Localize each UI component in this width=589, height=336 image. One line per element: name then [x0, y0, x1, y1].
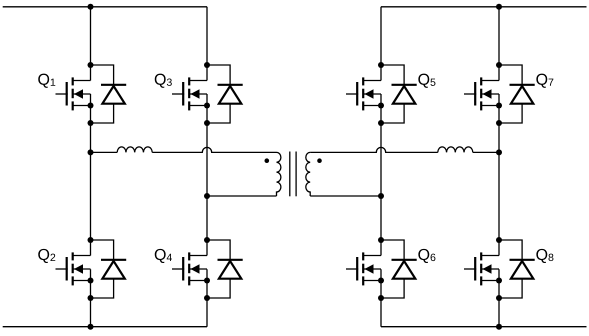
node Q1 drain junction	[88, 62, 94, 68]
wire leg 3 (Q5/Q6) vertical	[380, 7, 382, 327]
node Q6 source junction	[378, 278, 384, 284]
node Q1 source/diode junction	[88, 120, 94, 126]
node Q7 drain junction	[496, 62, 502, 68]
transformer T1 primary winding	[277, 152, 281, 196]
node leg 3 midpoint (secondary AC return)	[378, 193, 384, 199]
wire leg 2 (Q3/Q4) vertical	[206, 7, 208, 327]
node Q7 source junction	[496, 103, 502, 109]
transistor Q7	[464, 77, 499, 110]
node bottom rail / leg 1	[88, 324, 94, 330]
inductor L2	[438, 147, 473, 153]
label Q4	[155, 249, 172, 263]
wire bottom rail right bridge	[381, 326, 587, 328]
diode D1 (body diode)	[91, 65, 127, 123]
node Q8 source junction	[496, 278, 502, 284]
wire leg1 mid to inductor L1	[91, 151, 118, 153]
node Q6 source/diode junction	[378, 295, 384, 301]
wire transformer secondary top to inductor L2 (hop over leg 3)	[310, 147, 438, 152]
transformer T1 secondary winding	[306, 152, 310, 196]
wire leg2 mid to transformer primary bottom	[207, 195, 277, 197]
transistor Q5	[346, 77, 381, 110]
label Q2	[38, 249, 55, 263]
node leg 4 midpoint (secondary AC)	[496, 149, 502, 155]
node Q4 source/diode junction	[204, 295, 210, 301]
wire leg 1 (Q1/Q2) vertical	[90, 7, 92, 327]
node Q3 drain junction	[204, 62, 210, 68]
node leg 1 midpoint (primary AC)	[88, 149, 94, 155]
wire L1 to transformer primary top (hop over leg 2)	[152, 147, 276, 152]
transistor Q2	[56, 252, 91, 285]
diode D5 (body diode)	[381, 65, 417, 123]
wire transformer secondary bottom to leg 3 mid	[310, 195, 381, 197]
label Q5	[418, 74, 435, 88]
node top rail / leg 4	[496, 4, 502, 10]
transistor Q8	[464, 252, 499, 285]
label Q8	[536, 249, 553, 263]
node Q8 drain junction	[496, 237, 502, 243]
transistor Q3	[172, 77, 207, 110]
polarity dot secondary	[317, 158, 322, 163]
node leg 2 midpoint (primary AC return)	[204, 193, 210, 199]
inductor L1	[117, 147, 152, 153]
transistor Q4	[172, 252, 207, 285]
diode D2 (body diode)	[91, 240, 127, 298]
wire top rail right bridge	[381, 6, 587, 8]
wire top rail left bridge	[3, 6, 207, 8]
node Q4 source junction	[204, 278, 210, 284]
transistor Q6	[346, 252, 381, 285]
polarity dot primary	[265, 158, 270, 163]
diode D8 (body diode)	[499, 240, 535, 298]
node Q3 source/diode junction	[204, 120, 210, 126]
label Q7	[536, 74, 553, 88]
node Q5 drain junction	[378, 62, 384, 68]
node Q2 source junction	[88, 278, 94, 284]
node top rail / leg 1	[88, 4, 94, 10]
node Q8 source/diode junction	[496, 295, 502, 301]
node Q6 drain junction	[378, 237, 384, 243]
node Q5 source/diode junction	[378, 120, 384, 126]
wire leg 4 (Q7/Q8) vertical	[498, 7, 500, 327]
node Q3 source junction	[204, 103, 210, 109]
label Q3	[155, 74, 172, 88]
node bottom rail / leg 4	[496, 324, 502, 330]
diode D3 (body diode)	[207, 65, 243, 123]
diode D6 (body diode)	[381, 240, 417, 298]
diode D7 (body diode)	[499, 65, 535, 123]
node Q5 source junction	[378, 103, 384, 109]
node Q2 drain junction	[88, 237, 94, 243]
label Q1	[38, 74, 55, 88]
node Q2 source/diode junction	[88, 295, 94, 301]
node Q4 drain junction	[204, 237, 210, 243]
transformer T1 core	[290, 152, 296, 197]
transistor Q1	[56, 77, 91, 110]
label Q6	[418, 249, 435, 263]
node Q1 source junction	[88, 103, 94, 109]
diode D4 (body diode)	[207, 240, 243, 298]
wire bottom rail left bridge	[3, 326, 207, 328]
node Q7 source/diode junction	[496, 120, 502, 126]
wire inductor L2 to leg 4 mid	[473, 151, 499, 153]
